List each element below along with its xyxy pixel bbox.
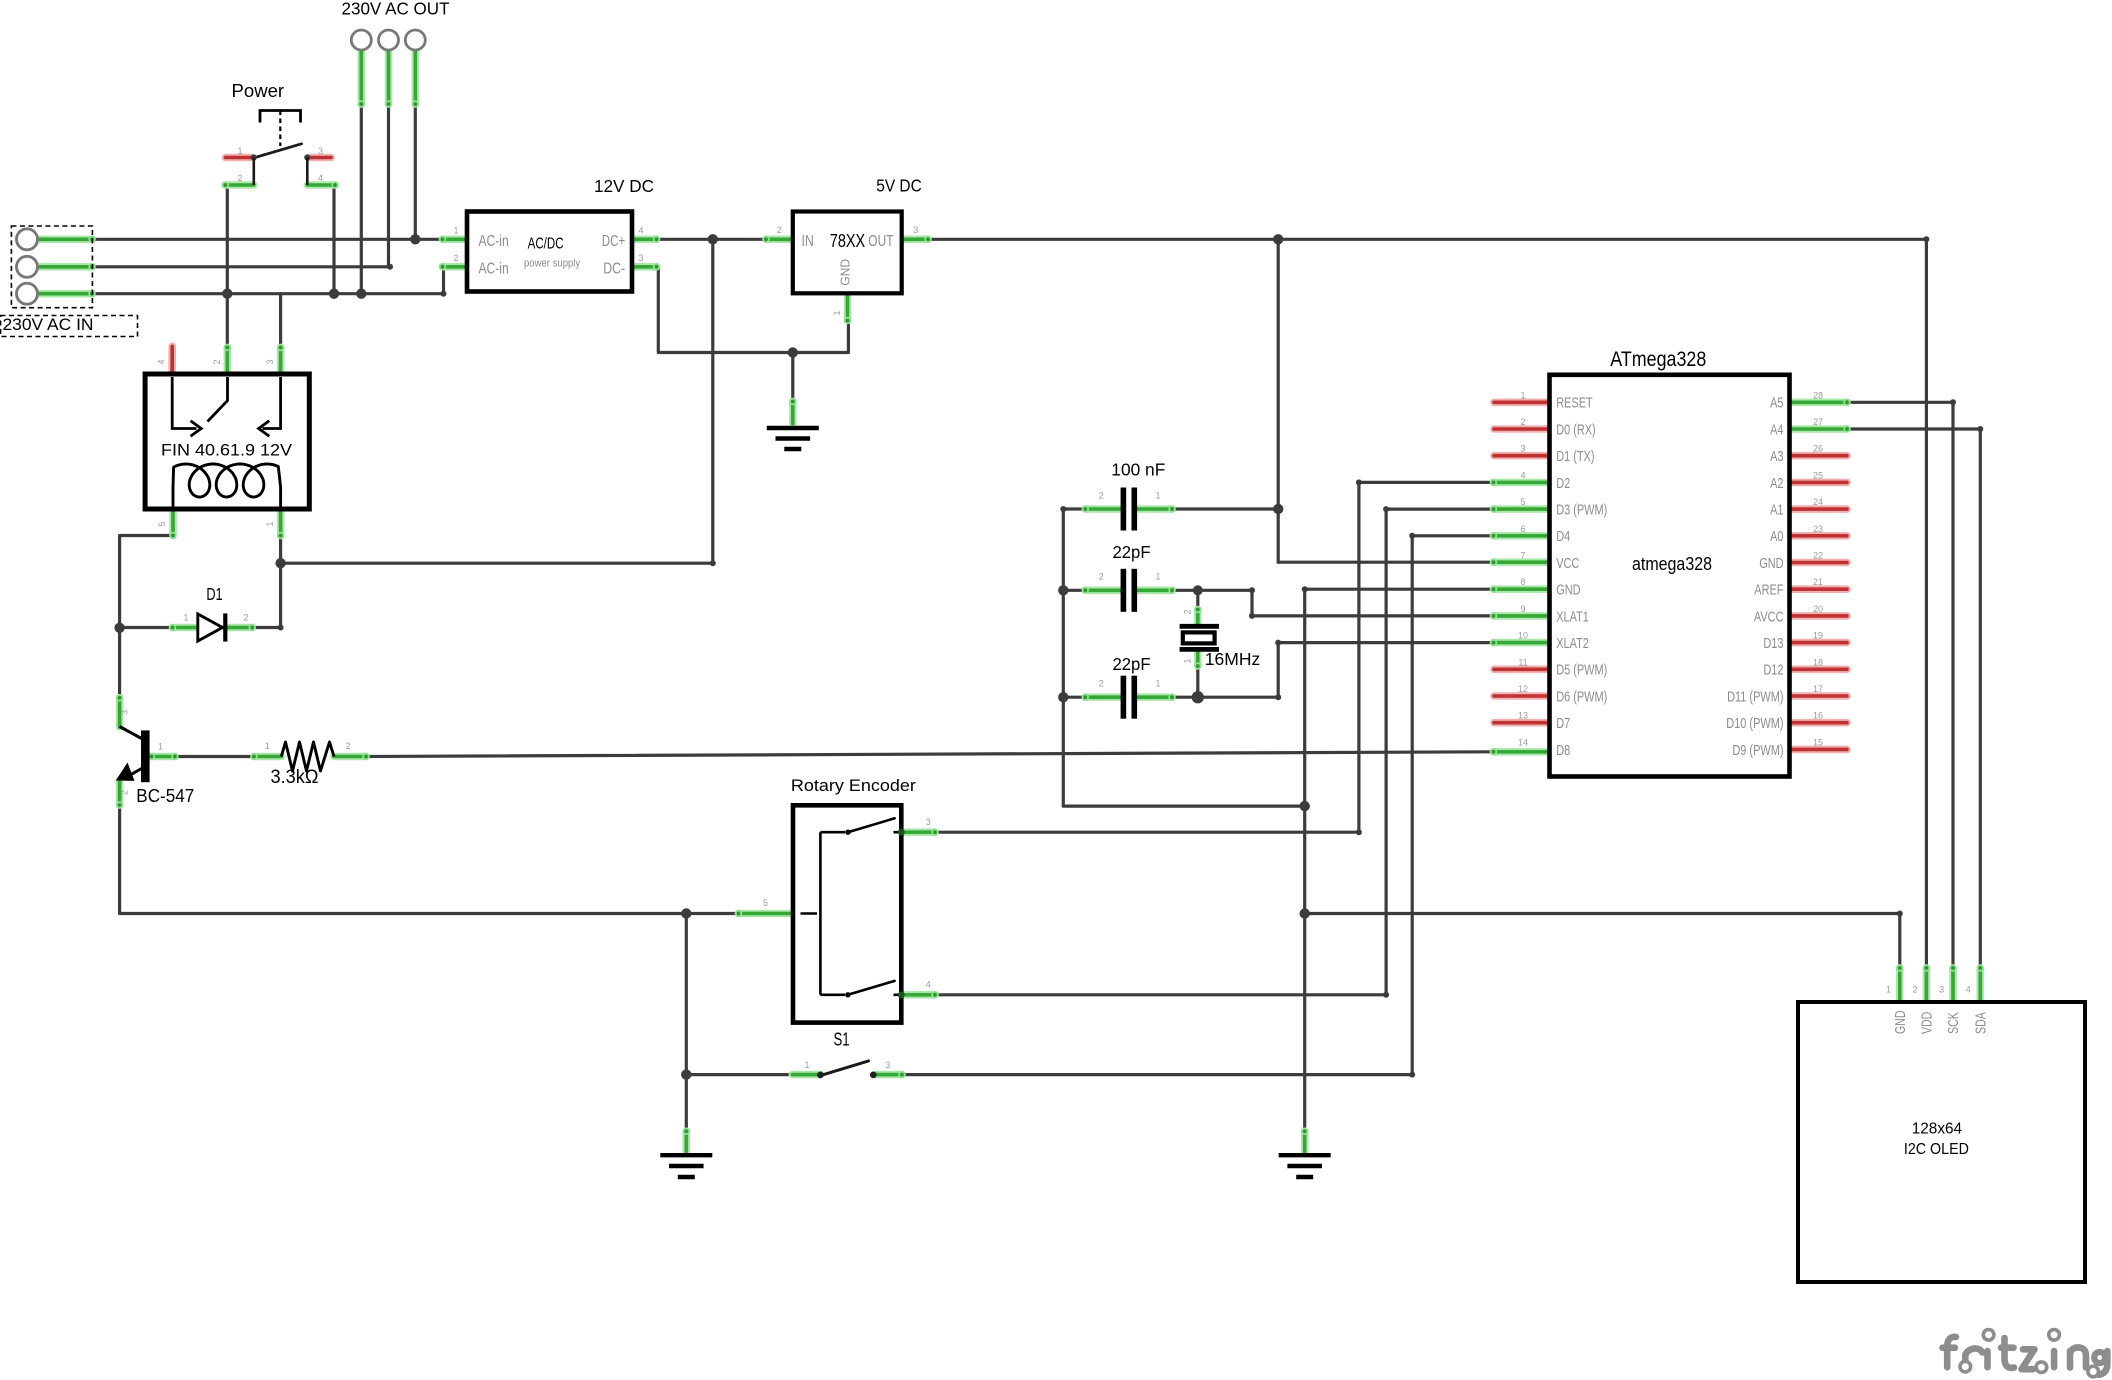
svg-text:A5: A5 [1770, 395, 1783, 412]
svg-text:IN: IN [802, 233, 814, 250]
U1 pin 5 [1490, 505, 1551, 512]
svg-text:2: 2 [243, 613, 248, 623]
wire relay pin1 horizontal [281, 562, 713, 565]
svg-text:1: 1 [237, 146, 242, 156]
svg-text:2: 2 [1520, 417, 1525, 427]
wire AC OUT c2 drop [387, 104, 390, 267]
switch SW1 lever [254, 144, 302, 158]
PS1 AC-in 1 pin [439, 236, 469, 243]
relay K1 contact symbol [172, 377, 196, 429]
wire xtal bottom link [1196, 666, 1199, 698]
svg-text:2: 2 [453, 253, 458, 263]
wire GND vertical [1303, 589, 1306, 1131]
svg-text:13: 13 [1518, 711, 1528, 721]
U1 pin 27 [1790, 425, 1851, 432]
svg-text:I2C OLED: I2C OLED [1904, 1141, 1969, 1158]
svg-text:D6 (PWM): D6 (PWM) [1556, 688, 1607, 705]
relay K1 coil [173, 464, 281, 507]
wire C2 pin2 wire [1063, 589, 1085, 592]
R1 pin 2 lead [334, 753, 370, 760]
svg-text:RESET: RESET [1556, 395, 1593, 412]
junction emitter node [681, 908, 691, 918]
rotary encoder internals [801, 832, 900, 995]
wire to D1 anode [120, 626, 173, 629]
svg-text:D7: D7 [1556, 715, 1570, 732]
wire GND to OLED [1305, 912, 1900, 915]
wire power pin2 to relay pin2 [226, 185, 229, 348]
wire 5V to OLED VDD [1925, 239, 1928, 968]
svg-text:D0 (RX): D0 (RX) [1556, 421, 1596, 438]
svg-text:25: 25 [1813, 470, 1823, 480]
wire rotary B to D3 h [935, 993, 1386, 996]
svg-text:GND: GND [1893, 1011, 1909, 1035]
svg-text:AC-in: AC-in [479, 233, 509, 250]
U1 pin 26 [1790, 452, 1848, 460]
K1 pin 1 [277, 509, 284, 539]
svg-text:1: 1 [158, 742, 163, 752]
wire C3 pin1 wire [1172, 696, 1198, 699]
svg-text:atmega328: atmega328 [1632, 553, 1712, 574]
junction rotary common wire end [736, 911, 741, 916]
svg-text:D9 (PWM): D9 (PWM) [1732, 742, 1783, 759]
C3 pin 2 lead [1082, 694, 1121, 701]
K1 pin 5 [169, 509, 176, 539]
crystal X1 (16MHz) [1180, 624, 1219, 629]
svg-text:22pF: 22pF [1113, 542, 1151, 562]
junction xtal bottom node [1192, 691, 1204, 703]
PS1 AC-in 2 pin [439, 263, 469, 270]
pin J2-1 lead [358, 51, 365, 108]
wire AC OUT c3 drop [414, 104, 417, 239]
junction gnd/caps [1300, 801, 1310, 811]
Q1 base pin [148, 753, 179, 760]
svg-text:1: 1 [453, 225, 458, 235]
wire relay pin5 to Q1 collector [120, 536, 173, 698]
svg-text:23: 23 [1813, 524, 1823, 534]
junction rail/C2 [1058, 585, 1068, 595]
U1 pin 16 [1790, 719, 1848, 727]
U1 pin 22 [1790, 559, 1848, 567]
svg-text:XLAT1: XLAT1 [1556, 608, 1589, 625]
junction rail/C3 [1058, 692, 1068, 702]
svg-text:5: 5 [1520, 497, 1525, 507]
R1 pin 1 lead [250, 753, 281, 760]
svg-text:1: 1 [1520, 390, 1525, 400]
svg-text:9: 9 [1520, 604, 1525, 614]
switch SW1 (Power) bracket [260, 111, 301, 123]
C2 pin 2 lead [1082, 587, 1121, 594]
U1 pin 17 [1790, 692, 1848, 700]
regulator U2 (78XX) box [793, 212, 902, 294]
svg-text:128x64: 128x64 [1912, 1121, 1963, 1138]
K1 pin 4 [168, 346, 176, 376]
junction corner D2 [1356, 829, 1362, 835]
wire gnd junction drop [685, 914, 688, 1075]
junction relay pin1 node [275, 558, 285, 568]
junction D1 anode node [114, 623, 124, 633]
svg-text:230V AC IN: 230V AC IN [3, 316, 94, 334]
capacitor C1 (100nF) [1121, 488, 1127, 531]
svg-text:1: 1 [265, 741, 270, 751]
junction corner D2b [1356, 479, 1362, 485]
svg-text:3: 3 [638, 253, 643, 263]
wire DC+ to 78XX IN [657, 238, 767, 241]
svg-text:24: 24 [1813, 497, 1823, 507]
junction row2 end [387, 264, 393, 270]
svg-text:3: 3 [318, 146, 323, 156]
wire to rotary common [686, 912, 738, 915]
U1 pin 20 [1790, 612, 1848, 620]
svg-text:3.3kΩ: 3.3kΩ [271, 766, 319, 788]
U1 pin 3 [1494, 452, 1551, 460]
svg-text:3: 3 [120, 710, 130, 715]
junction xlat1 corner b [1249, 613, 1255, 619]
svg-text:20: 20 [1813, 604, 1823, 614]
svg-text:A1: A1 [1770, 502, 1783, 519]
S1 pin 3 lead [876, 1071, 906, 1078]
Q1 emitter pin [116, 781, 123, 809]
switch pin 3 lead [309, 154, 331, 162]
svg-text:2: 2 [212, 359, 222, 364]
U2 OUT pin [902, 236, 932, 243]
wire row3 up to AC-in 2 [443, 267, 444, 294]
U1 pin 24 [1790, 505, 1848, 513]
svg-text:VCC: VCC [1556, 555, 1579, 572]
svg-text:4: 4 [926, 980, 931, 990]
wire 5V to VCC drop [1277, 509, 1280, 562]
U1 pin 2 [1494, 425, 1551, 433]
svg-text:230V AC OUT: 230V AC OUT [342, 0, 450, 19]
U2 GND pin [844, 293, 851, 324]
ENC pin 3 lead [901, 829, 938, 836]
svg-text:2: 2 [1099, 490, 1104, 500]
svg-text:D10 (PWM): D10 (PWM) [1726, 715, 1783, 732]
ground 3 [1279, 1155, 1331, 1177]
U1 pin 6 [1490, 532, 1551, 539]
wire AC neutral row [92, 265, 390, 268]
PS1 DC+ pin [630, 236, 660, 243]
junction rail top [1060, 506, 1066, 512]
pin J1-3 lead [39, 290, 96, 297]
U1 pin 19 [1790, 639, 1848, 647]
svg-text:2: 2 [237, 173, 242, 183]
svg-text:Power: Power [232, 81, 285, 101]
connector J2 (230V AC OUT) [351, 30, 371, 50]
svg-text:D11 (PWM): D11 (PWM) [1727, 688, 1783, 705]
svg-text:4: 4 [1966, 985, 1971, 995]
display OLED (128x64 I2C) box [1798, 1002, 2085, 1282]
pin J1-2 lead [39, 263, 96, 270]
ground 3 stub [1301, 1128, 1308, 1152]
wire power pin4 drop [332, 185, 335, 294]
wire OLED GND drop [1898, 914, 1901, 969]
switch pin 2 lead [222, 181, 254, 188]
U1 pin 1 [1494, 398, 1551, 406]
wire to VCC pin7 [1278, 561, 1493, 564]
pin J1-1 lead [39, 236, 96, 243]
svg-text:AVCC: AVCC [1754, 608, 1784, 625]
wire to ground 2 [685, 1075, 688, 1132]
label box 230V AC IN [1, 316, 138, 337]
junction gnd corner [1302, 586, 1308, 592]
switch pin 4 lead [307, 181, 338, 188]
junction 78xx gnd pin end [845, 318, 851, 324]
junction 5V tap [1273, 234, 1283, 244]
wire rotary A to D2 h [935, 831, 1359, 834]
svg-text:10: 10 [1518, 631, 1528, 641]
svg-text:3: 3 [265, 359, 275, 364]
diode D1 [198, 614, 223, 641]
junction DC+ tap [708, 234, 718, 244]
junction corner diode [278, 625, 284, 631]
ground 2 stub [683, 1128, 690, 1152]
wire S1 to D4 h [902, 1073, 1412, 1076]
svg-text:D5 (PWM): D5 (PWM) [1556, 662, 1607, 679]
wire rotary A to D2 v [1359, 482, 1494, 832]
resistor R1 (3.3k) [281, 742, 334, 771]
U1 pin 11 [1494, 665, 1551, 673]
wire 5V branch down [1277, 239, 1280, 509]
U1 pin 28 [1790, 399, 1851, 406]
U1 pin 21 [1790, 585, 1848, 593]
svg-text:S1: S1 [833, 1030, 849, 1050]
svg-text:1: 1 [1183, 658, 1193, 663]
svg-text:21: 21 [1813, 577, 1823, 587]
relay K1 (FIN 40.61.9 12V) box [145, 374, 309, 509]
svg-text:7: 7 [1520, 551, 1525, 561]
rotary encoder ENC1 box [793, 805, 901, 1022]
U1 pin 10 [1490, 639, 1551, 646]
wire rotary B to D3 v [1386, 509, 1493, 995]
pin J2-2 lead [385, 51, 392, 108]
svg-text:2: 2 [777, 225, 782, 235]
svg-text:D3 (PWM): D3 (PWM) [1556, 502, 1607, 519]
D1 pin 1 lead [169, 624, 198, 631]
wire cap rail to gnd net [1063, 804, 1304, 807]
svg-text:D4: D4 [1556, 528, 1570, 545]
svg-text:A3: A3 [1770, 448, 1783, 465]
svg-text:100 nF: 100 nF [1111, 459, 1165, 479]
svg-text:AC-in: AC-in [479, 260, 509, 277]
C1 pin 2 lead [1082, 505, 1121, 512]
svg-text:D8: D8 [1556, 742, 1570, 759]
capacitor C2 (22pF) [1121, 569, 1127, 612]
junction corner sda [1977, 426, 1983, 432]
junction gnd/oled [1300, 908, 1310, 918]
svg-text:1: 1 [1155, 490, 1160, 500]
svg-text:2: 2 [346, 741, 351, 751]
U1 pin 13 [1494, 719, 1551, 727]
wire AC live row [92, 238, 443, 241]
junction corner [710, 560, 716, 566]
svg-text:8: 8 [1520, 577, 1525, 587]
junction row1/c3 [410, 234, 420, 244]
X1 pin 1 lead [1194, 651, 1201, 670]
wire DC+ vertical to relay net [711, 239, 714, 563]
svg-text:11: 11 [1518, 657, 1527, 667]
svg-text:BC-547: BC-547 [136, 786, 194, 806]
svg-text:power supply: power supply [524, 257, 581, 269]
ENC pin 5 lead [735, 910, 793, 917]
svg-text:1: 1 [265, 521, 275, 526]
svg-text:18: 18 [1813, 657, 1823, 667]
svg-text:D13: D13 [1763, 635, 1783, 652]
switch S1 lever [820, 1061, 868, 1076]
switch pin 1 lead [226, 154, 253, 162]
svg-text:GND: GND [1759, 555, 1783, 572]
svg-text:2: 2 [1183, 609, 1193, 614]
svg-text:26: 26 [1813, 444, 1823, 454]
U1 pin 12 [1494, 692, 1551, 700]
svg-text:GND: GND [838, 259, 853, 286]
wire DC- to 78XX GND [657, 267, 849, 353]
wire to D1 cathode [252, 626, 280, 629]
svg-text:3: 3 [1939, 985, 1944, 995]
wire XTAL1 to XLAT1 [1198, 590, 1494, 616]
svg-text:ATmega328: ATmega328 [1610, 348, 1706, 371]
junction S1 wire end [789, 1072, 795, 1078]
wire A5 to OLED SCK [1847, 402, 1953, 968]
S1 pin 1 lead [792, 1071, 820, 1079]
K1 pin 3 [277, 344, 284, 376]
wire relay pin1 down to diode [279, 536, 282, 628]
svg-text:D1: D1 [206, 584, 222, 604]
svg-text:22: 22 [1813, 551, 1823, 561]
svg-text:2: 2 [120, 790, 130, 795]
junction S1 node [681, 1069, 691, 1079]
svg-text:28: 28 [1813, 390, 1823, 400]
U1 pin 14 [1490, 748, 1551, 755]
svg-text:AC/DC: AC/DC [528, 236, 564, 253]
wire C1 pin2 wire [1063, 507, 1085, 510]
svg-text:14: 14 [1518, 737, 1528, 747]
svg-text:3: 3 [913, 225, 918, 235]
junction corner D3b [1383, 506, 1389, 512]
junction corner D4b [1409, 533, 1415, 539]
junction row3/c1 [356, 289, 366, 299]
svg-text:D12: D12 [1763, 662, 1783, 679]
svg-text:16MHz: 16MHz [1205, 649, 1261, 669]
svg-text:D2: D2 [1556, 475, 1570, 492]
svg-text:22pF: 22pF [1113, 654, 1151, 674]
svg-text:A0: A0 [1770, 528, 1783, 545]
PS1 DC- pin [630, 263, 660, 270]
svg-text:AREF: AREF [1754, 582, 1783, 599]
svg-text:5: 5 [157, 521, 167, 526]
ground 1 [767, 428, 819, 449]
svg-text:1: 1 [1886, 985, 1891, 995]
Q1 collector pin [116, 694, 123, 727]
U2 IN pin [762, 236, 793, 243]
X1 pin 2 lead [1194, 606, 1201, 625]
svg-text:1: 1 [1155, 572, 1160, 582]
svg-text:19: 19 [1813, 631, 1823, 641]
junction corner D3 [1383, 992, 1389, 998]
junction row3/pin4 [329, 289, 339, 299]
wire AC OUT c1 drop [360, 104, 363, 294]
wire R1 to D8 [366, 752, 1494, 757]
svg-text:4: 4 [1520, 470, 1525, 480]
svg-text:5: 5 [763, 898, 768, 908]
wire AC row3 [92, 292, 444, 295]
U1 pin 8 [1490, 586, 1551, 593]
ENC pin 4 lead [901, 991, 938, 998]
junction xlat2 corner b [1275, 640, 1281, 646]
power supply PS1 (AC/DC) box [467, 212, 632, 292]
wire Q1 base to R1 [175, 755, 254, 758]
svg-text:17: 17 [1813, 684, 1823, 694]
svg-text:SDA: SDA [1973, 1012, 1989, 1034]
junction xlat1 corner a [1249, 587, 1255, 593]
wire cap gnd rail [1062, 509, 1065, 806]
wire XTAL2 to XLAT2 [1198, 643, 1494, 698]
wire 5V rail [928, 238, 1926, 241]
svg-text:12V DC: 12V DC [594, 176, 654, 196]
svg-text:78XX: 78XX [830, 230, 865, 251]
U1 pin 7 [1490, 559, 1551, 566]
transistor Q1 (BC-547) [141, 730, 150, 782]
OLED pin 4 [1977, 964, 1984, 1002]
ground 1 stub [789, 398, 796, 424]
wire S1 to D4 v [1412, 536, 1493, 1075]
svg-text:D1 (TX): D1 (TX) [1556, 448, 1594, 465]
K1 pin 2 [224, 344, 231, 376]
pin J2-3 lead [412, 51, 419, 108]
svg-text:5V DC: 5V DC [876, 175, 922, 195]
fritzing watermark [1943, 1337, 2108, 1375]
svg-text:4: 4 [157, 359, 167, 364]
svg-text:2: 2 [1099, 679, 1104, 689]
junction xlat2 corner a [1275, 694, 1281, 700]
U1 pin 18 [1790, 665, 1848, 673]
svg-text:OUT: OUT [868, 233, 894, 250]
svg-text:XLAT2: XLAT2 [1556, 635, 1589, 652]
svg-text:1: 1 [183, 613, 188, 623]
D1 pin 2 lead [225, 624, 256, 631]
junction emitter pin end [117, 803, 123, 809]
junction corner vdd [1923, 236, 1929, 242]
C1 pin 1 lead [1137, 505, 1176, 512]
ground 2 [660, 1155, 712, 1177]
junction gnd1 tap [788, 347, 798, 357]
wire C1 pin1 wire [1172, 507, 1278, 510]
capacitor C3 (22pF) [1121, 676, 1127, 719]
svg-text:3: 3 [885, 1060, 890, 1070]
svg-text:16: 16 [1813, 711, 1823, 721]
OLED pin 2 [1923, 964, 1930, 1002]
C2 pin 1 lead [1137, 587, 1176, 594]
wire A4 to OLED SDA [1847, 429, 1980, 968]
junction corner sck [1950, 399, 1956, 405]
U1 pin 25 [1790, 479, 1848, 487]
svg-text:3: 3 [926, 817, 931, 827]
svg-text:SCK: SCK [1946, 1012, 1962, 1034]
wire C3 pin2 wire [1063, 696, 1085, 699]
wire GND to pin8 [1305, 588, 1494, 591]
svg-text:4: 4 [638, 225, 643, 235]
svg-text:2: 2 [1099, 572, 1104, 582]
svg-text:6: 6 [1520, 524, 1525, 534]
wire row3 to relay pin3 [279, 294, 282, 348]
junction corner D4 [1409, 1072, 1415, 1078]
svg-text:A4: A4 [1770, 421, 1783, 438]
wire emitter to gnd junction [120, 806, 687, 914]
U1 pin 4 [1490, 479, 1551, 486]
wire to ground 1 [791, 353, 794, 402]
svg-text:2: 2 [1912, 985, 1917, 995]
svg-text:A2: A2 [1770, 475, 1783, 492]
junction row3/relay2 [222, 289, 232, 299]
